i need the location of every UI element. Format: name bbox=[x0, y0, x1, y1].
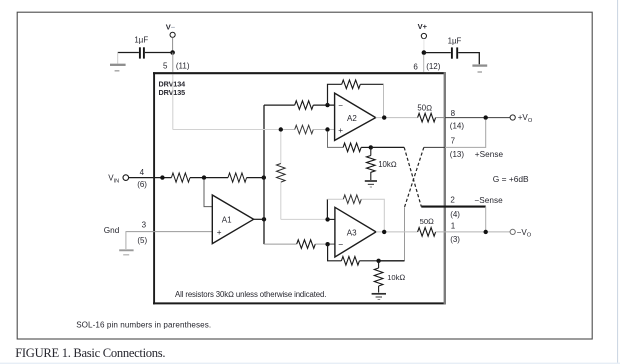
svg-text:(3): (3) bbox=[450, 235, 460, 244]
pin 7 (13) label bbox=[450, 137, 465, 159]
wire V+ junction to capacitor C2 bbox=[424, 52, 451, 54]
svg-text:1µF: 1µF bbox=[134, 35, 148, 44]
pin 6 (12) label bbox=[413, 62, 440, 71]
wire bus to resistor R3 bbox=[264, 104, 295, 106]
svg-text:(12): (12) bbox=[426, 62, 441, 71]
note SOL-16 bbox=[76, 320, 211, 329]
wire R6 to A3 non-inverting node (faint) bbox=[281, 218, 328, 220]
resistor R2 30k feedback A1 bbox=[228, 173, 247, 182]
node V+ terminal bbox=[418, 22, 428, 38]
junction +VO sense tie bbox=[484, 115, 488, 119]
resistor R8 30k A2 sense network bbox=[343, 143, 361, 152]
wire Gnd down bbox=[125, 232, 127, 249]
wire A3 non-inverting node to input bbox=[328, 218, 335, 220]
wire A2 noninv node down to R8 bbox=[328, 132, 344, 148]
wire feedback drop to A2 output (faint) bbox=[383, 84, 385, 116]
wire R13 to node S3 bbox=[359, 260, 378, 262]
resistor R6 30k N2 to A3 non-inverting (vertical) bbox=[277, 132, 286, 220]
node +VO terminal bbox=[510, 113, 533, 124]
svg-text:A3: A3 bbox=[347, 229, 357, 238]
svg-text:(14): (14) bbox=[450, 122, 465, 131]
caption FIGURE 1 bbox=[15, 346, 165, 360]
junction A3 non-inverting node bbox=[325, 217, 329, 221]
resistor R5 30k to A2 non-inverting bbox=[295, 125, 314, 134]
wire R2 to bus bbox=[247, 177, 264, 179]
wire R8 to node S2 bbox=[361, 146, 371, 148]
wire C1 to ground bbox=[118, 53, 139, 64]
svg-text:A1: A1 bbox=[222, 215, 232, 224]
svg-text:+VO: +VO bbox=[518, 113, 533, 124]
wire A3 fb top riser bbox=[326, 199, 328, 219]
ground at C2 bbox=[472, 66, 487, 72]
wire A3 fb top to R11 (faint) bbox=[327, 198, 343, 200]
label G = +6dB bbox=[493, 174, 529, 184]
ground at C1 bbox=[110, 65, 126, 71]
wire +Sense stub to tie (faint) bbox=[445, 120, 486, 148]
wire Gnd to A1 non-inverting input bbox=[126, 231, 213, 233]
svg-text:10kΩ: 10kΩ bbox=[378, 160, 397, 169]
junction A3 output bbox=[382, 230, 386, 234]
ground at R9 bbox=[365, 181, 377, 187]
capacitor C2 1uF bbox=[448, 37, 462, 59]
resistor R11 30k feedback A3 bbox=[343, 195, 361, 204]
svg-text:(13): (13) bbox=[450, 150, 465, 159]
resistor R12 50ohm output A3 bbox=[418, 217, 436, 236]
junction bus-input bbox=[262, 175, 266, 179]
resistor R13 30k A3 sense network bbox=[341, 257, 359, 266]
svg-text:3: 3 bbox=[142, 221, 147, 230]
wire R11 to drop (faint) bbox=[361, 199, 384, 232]
wire pin 8 to +VO bbox=[445, 117, 510, 119]
svg-text:−: − bbox=[338, 240, 343, 250]
wire V- pin into IC (faint) bbox=[172, 53, 174, 130]
pin 4 (6) label bbox=[137, 168, 147, 189]
svg-text:V–: V– bbox=[166, 22, 175, 31]
resistor R14 10k to ground bbox=[374, 261, 405, 293]
svg-text:+Sense: +Sense bbox=[475, 150, 504, 159]
wire -Sense tie down (faint) bbox=[485, 207, 487, 232]
svg-text:50Ω: 50Ω bbox=[417, 103, 432, 112]
svg-text:2: 2 bbox=[450, 195, 455, 204]
note all resistors 30k bbox=[175, 290, 326, 299]
wire A2 output to 50ohm bbox=[376, 117, 418, 119]
svg-text:+: + bbox=[338, 126, 343, 135]
wire V+ circle to junction (faded) bbox=[423, 39, 425, 51]
svg-text:DRV134: DRV134 bbox=[159, 79, 186, 88]
wire A1 output to bus bbox=[254, 218, 264, 220]
junction at pin 4 inside bbox=[160, 175, 164, 179]
pin 8 (14) label bbox=[450, 109, 465, 131]
crossover diagonal to -Sense bbox=[404, 147, 421, 206]
svg-text:(4): (4) bbox=[450, 210, 460, 219]
pin 5 (11) label bbox=[163, 61, 190, 70]
junction A1 output on bus bbox=[262, 217, 266, 221]
scan artifact bottom strip bbox=[0, 363, 620, 364]
junction N2 bbox=[279, 127, 283, 131]
wire R1 to R2 bbox=[190, 177, 228, 179]
wire C2 to ground bbox=[458, 53, 479, 65]
wire S3 to +Sense riser bbox=[379, 260, 405, 262]
svg-text:+: + bbox=[217, 228, 222, 237]
pin 2 (4) label bbox=[450, 195, 460, 219]
svg-text:10kΩ: 10kΩ bbox=[387, 273, 405, 282]
wire A2 feedback up bbox=[328, 84, 342, 105]
wire bus to resistor R10 bbox=[264, 243, 297, 245]
svg-text:(5): (5) bbox=[137, 236, 147, 245]
svg-text:VIN: VIN bbox=[108, 174, 119, 185]
wire bus vertical bbox=[263, 105, 265, 244]
svg-text:50Ω: 50Ω bbox=[420, 217, 434, 226]
resistor R9 10k to ground bbox=[367, 147, 397, 180]
wire V+ pin into IC (faint) bbox=[423, 55, 425, 72]
wire A3 inv node down to R13 bbox=[328, 244, 342, 261]
resistor R1 30k input bbox=[171, 173, 190, 182]
junction A3 inverting node bbox=[325, 242, 329, 246]
wire 50ohm to pin 8 bbox=[436, 117, 445, 119]
svg-text:−Sense: −Sense bbox=[474, 196, 503, 205]
junction A2 output bbox=[382, 115, 386, 119]
svg-text:Gnd: Gnd bbox=[104, 226, 120, 235]
svg-text:(11): (11) bbox=[176, 61, 190, 70]
IC box DRV134/DRV135 bbox=[153, 72, 446, 304]
junction node S2 bbox=[369, 145, 373, 149]
node VIN input terminal bbox=[108, 174, 128, 185]
svg-text:1µF: 1µF bbox=[448, 37, 462, 46]
crossover diagonal from +Sense bbox=[405, 147, 424, 207]
wire A3 output to 50ohm bbox=[376, 231, 418, 233]
junction A2 non-inverting node bbox=[325, 127, 329, 131]
wire R3 to A2 inverting input bbox=[313, 104, 334, 106]
wire N2 line faint bbox=[173, 129, 279, 131]
wire R4 to A2 output drop bbox=[360, 83, 383, 85]
label +Sense bbox=[475, 150, 504, 159]
node -VO terminal bbox=[510, 228, 532, 239]
svg-text:4: 4 bbox=[140, 168, 145, 177]
wire pin7 inside bbox=[424, 146, 445, 148]
svg-text:(6): (6) bbox=[137, 180, 147, 189]
wire N2 to resistor R5 bbox=[283, 129, 295, 131]
op-amp A3 bbox=[335, 207, 376, 257]
wire VIN to resistor R1 bbox=[129, 177, 172, 179]
junction node S3 bbox=[376, 259, 380, 263]
resistor R7 50ohm output A2 bbox=[417, 103, 435, 121]
svg-text:8: 8 bbox=[451, 109, 456, 118]
svg-text:FIGURE 1. Basic Connections.: FIGURE 1. Basic Connections. bbox=[15, 346, 165, 360]
svg-text:−VO: −VO bbox=[517, 228, 532, 239]
wire 50ohm to pin 1 and -VO (faint) bbox=[436, 231, 511, 233]
svg-text:SOL-16 pin numbers in parenthe: SOL-16 pin numbers in parentheses. bbox=[76, 320, 211, 329]
junction node A bbox=[202, 175, 206, 179]
op-amp A2 bbox=[335, 93, 376, 140]
wire V- circle to junction bbox=[172, 37, 174, 52]
resistor R4 30k feedback A2 bbox=[342, 80, 361, 89]
svg-text:6: 6 bbox=[413, 63, 418, 72]
ground at R14 bbox=[372, 294, 386, 300]
svg-text:5: 5 bbox=[163, 62, 168, 71]
wire node A to A1 inverting input bbox=[204, 180, 212, 207]
junction on V+ net bbox=[422, 50, 427, 55]
wire R5 to A2 non-inverting node bbox=[313, 129, 334, 131]
svg-text:−: − bbox=[338, 101, 343, 110]
svg-text:DRV135: DRV135 bbox=[159, 88, 186, 97]
wire V- junction to capacitor C1 bbox=[145, 52, 173, 54]
junction -VO sense tie bbox=[484, 230, 488, 234]
junction on V- net bbox=[170, 50, 175, 55]
op-amp A1 bbox=[212, 195, 253, 244]
resistor R3 30k to A2 inverting bbox=[295, 101, 314, 110]
pin 3 (5) label bbox=[137, 221, 147, 245]
pin 1 (3) label bbox=[450, 222, 460, 244]
wire R10 to A3 inverting node bbox=[315, 243, 335, 245]
label DRV134 / DRV135 bbox=[159, 79, 186, 97]
svg-text:V+: V+ bbox=[418, 22, 428, 31]
resistor R10 30k to A3 inverting bbox=[297, 240, 316, 249]
wire +Sense drop to A3 output net bbox=[404, 207, 406, 261]
svg-text:1: 1 bbox=[451, 222, 456, 231]
svg-text:All resistors 30kΩ unless othe: All resistors 30kΩ unless otherwise indi… bbox=[175, 290, 326, 299]
ground at Gnd pin bbox=[119, 250, 133, 255]
capacitor C1 1uF bbox=[134, 35, 148, 58]
svg-text:A2: A2 bbox=[347, 114, 357, 123]
node Gnd terminal bbox=[104, 226, 120, 235]
wire -Sense thick bbox=[421, 206, 485, 208]
wire S2 to crossover bbox=[371, 146, 404, 148]
junction A2 inverting node bbox=[325, 103, 329, 107]
node V- terminal bbox=[166, 22, 175, 37]
svg-text:7: 7 bbox=[451, 137, 456, 146]
scan artifact right edge line bbox=[617, 0, 619, 364]
label -Sense bbox=[474, 196, 503, 205]
svg-text:G = +6dB: G = +6dB bbox=[493, 174, 529, 184]
